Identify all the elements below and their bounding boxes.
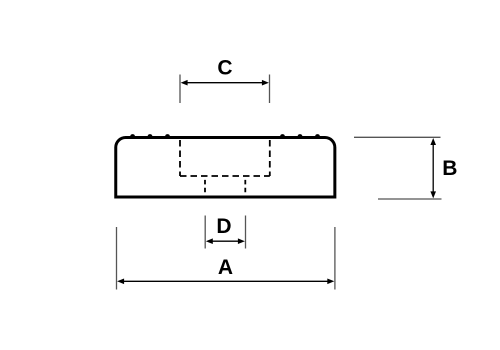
hidden hole left edge (dashed): [204, 180, 206, 193]
knurl bump 5: [298, 134, 303, 136]
knurl bump 2: [148, 134, 153, 136]
dim C arrowhead left: [181, 80, 188, 86]
knurl bump 3: [165, 134, 170, 136]
dim A extension line right: [334, 227, 336, 290]
dim A dimension line: [123, 280, 329, 282]
dim C extension line right: [269, 75, 271, 104]
dim D arrowhead right: [238, 238, 245, 244]
dim A arrowhead right: [327, 279, 334, 285]
hidden hole right edge (dashed): [244, 180, 246, 193]
dim B extension line bottom: [378, 198, 442, 200]
knurl bump 4: [280, 134, 285, 136]
dim C arrowhead right: [262, 80, 269, 86]
dim A arrowhead left: [117, 279, 124, 285]
svg-text:C: C: [217, 57, 232, 80]
dim C extension line left: [179, 75, 181, 104]
dim B arrowhead bottom: [430, 191, 436, 198]
hidden cavity right edge (dashed): [269, 140, 271, 176]
knurl bump 1: [130, 134, 135, 136]
dim D arrowhead left: [206, 238, 213, 244]
svg-text:A: A: [218, 256, 233, 279]
dim B arrowhead top: [430, 138, 436, 145]
svg-text:B: B: [442, 157, 457, 180]
dim D extension line left: [204, 216, 206, 249]
dim C dimension line: [186, 82, 264, 84]
dim D extension line right: [245, 216, 247, 249]
dim D dimension line: [212, 240, 240, 242]
body outline (rubber cap cross-section): [116, 138, 335, 197]
svg-text:D: D: [216, 215, 231, 238]
dim A extension line left: [116, 227, 118, 290]
hidden cavity left edge (dashed): [179, 140, 181, 176]
knurl bump 6: [315, 134, 320, 136]
dim B extension line top: [354, 136, 441, 138]
hidden cavity bottom edge (dashed): [180, 175, 270, 177]
dim B dimension line: [432, 144, 434, 193]
